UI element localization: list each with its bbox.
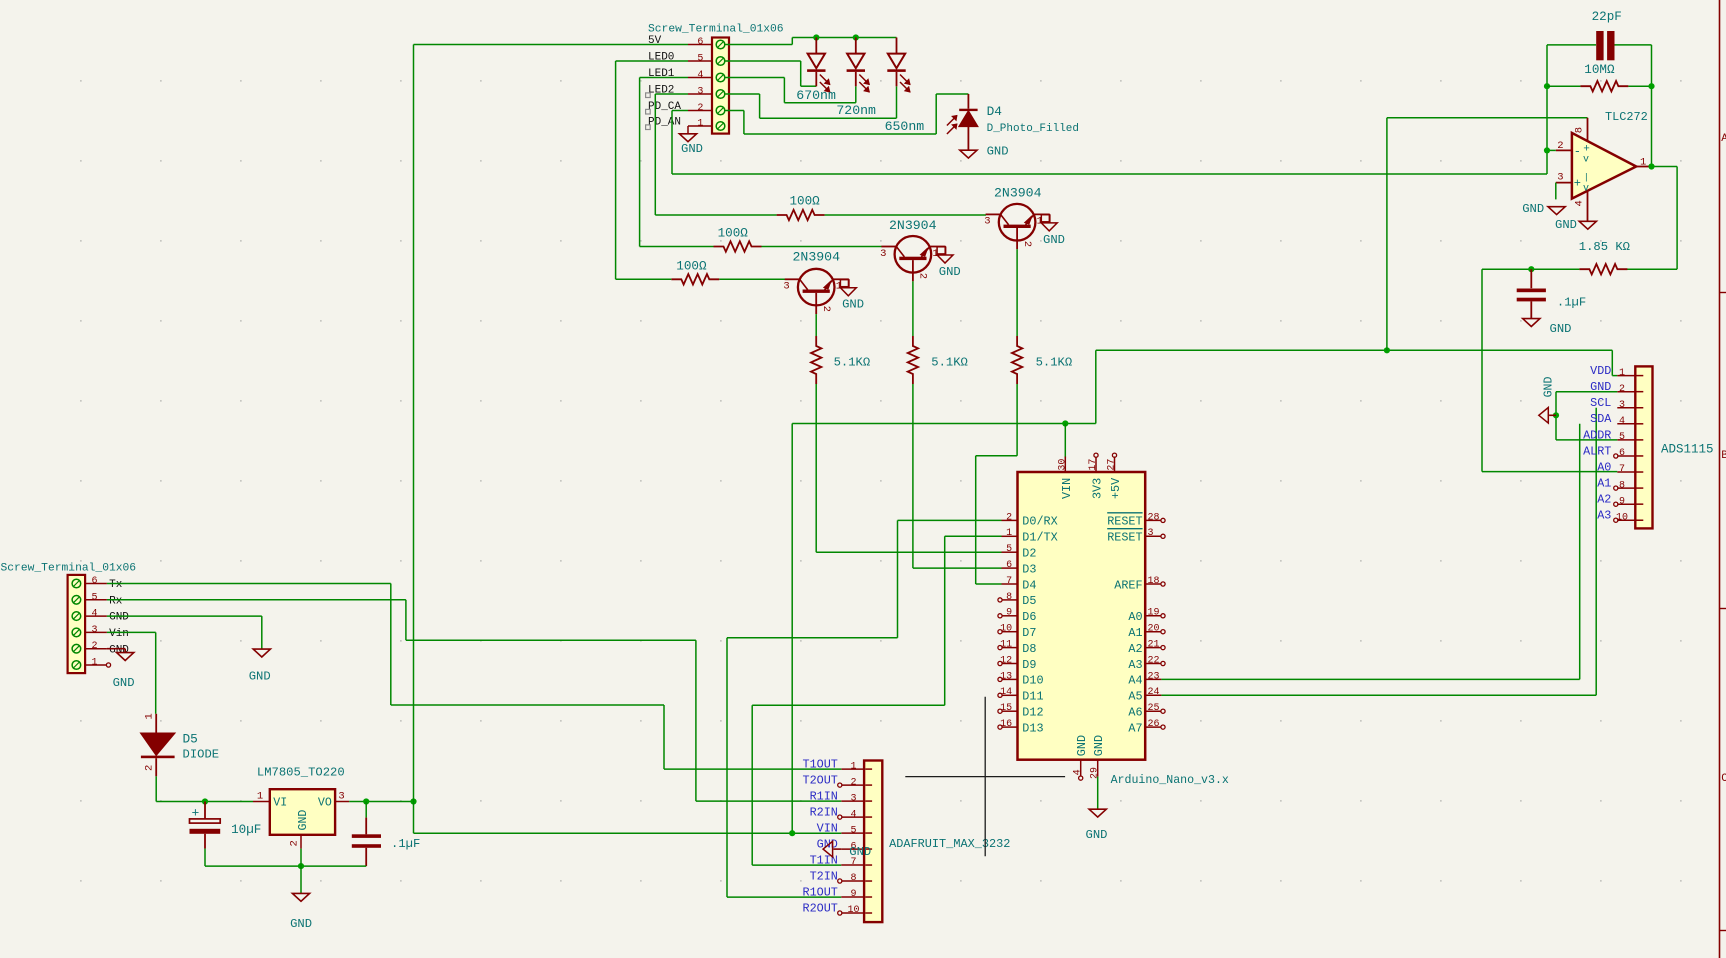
svg-text:23: 23: [1148, 671, 1160, 682]
svg-text:7: 7: [1006, 576, 1012, 587]
svg-text:28: 28: [1148, 512, 1160, 523]
pin 29 GND of U2: [1089, 735, 1106, 779]
svg-text:24: 24: [1148, 687, 1160, 698]
wire Tx to U3 T1OUT: [391, 584, 842, 770]
pin 22 A3 of U2: [1128, 655, 1165, 671]
svg-text:GND: GND: [1555, 218, 1577, 232]
pin 3 SCL of U4: [1590, 396, 1635, 411]
svg-text:1: 1: [1006, 528, 1012, 539]
svg-text:T2IN: T2IN: [810, 869, 838, 883]
svg-text:4: 4: [697, 70, 703, 81]
svg-text:2: 2: [289, 840, 301, 846]
junction feedback at U1 pin 2: [1544, 147, 1550, 153]
svg-text:D12: D12: [1022, 706, 1043, 720]
resistor R4 100Ohm (top row): [777, 195, 825, 221]
pin 3 R1IN of U3: [810, 790, 865, 805]
svg-text:1: 1: [1640, 156, 1646, 168]
wire J2 pin 4 to D2 cathode: [726, 78, 856, 103]
svg-text:.1µF: .1µF: [1557, 296, 1586, 310]
svg-text:D9: D9: [1022, 658, 1036, 672]
svg-text:GND: GND: [1092, 735, 1106, 756]
pin 24 A5 of U2: [1128, 687, 1161, 703]
pin 3 of J1: [85, 625, 129, 640]
svg-text:GND: GND: [297, 810, 310, 831]
pin 10 A3 of U4: [1597, 509, 1635, 524]
svg-text:Screw_Terminal_01x06: Screw_Terminal_01x06: [1, 562, 137, 574]
ground symbol at C4: [1523, 319, 1572, 336]
svg-text:LM7805_TO220: LM7805_TO220: [257, 766, 345, 780]
ground symbol at U1 pin 4: [1555, 218, 1596, 232]
svg-text:3: 3: [338, 790, 344, 802]
pin 25 A6 of U2: [1128, 703, 1165, 719]
svg-text:2: 2: [144, 765, 156, 771]
svg-text:D10: D10: [1022, 674, 1043, 688]
svg-text:3: 3: [697, 87, 703, 98]
connector J2 Screw_Terminal_01x06 (top): [648, 23, 784, 133]
svg-text:5.1KΩ: 5.1KΩ: [931, 355, 968, 369]
svg-text:2: 2: [1006, 512, 1012, 523]
wire +5V to TLC272 pin 8: [1387, 118, 1588, 350]
wire Rx to U3 R1IN: [406, 600, 841, 801]
svg-text:D7: D7: [1022, 626, 1036, 640]
svg-text:D1/TX: D1/TX: [1022, 531, 1057, 545]
svg-text:6: 6: [1006, 560, 1012, 571]
svg-text:22: 22: [1148, 655, 1160, 666]
pin 9 A2 of U4: [1597, 493, 1635, 508]
svg-text:650nm: 650nm: [885, 119, 925, 134]
svg-text:D_Photo_Filled: D_Photo_Filled: [987, 123, 1079, 135]
junction +5V at Arduino VIN: [1062, 420, 1068, 426]
pin 10 D7 of U2: [998, 624, 1037, 640]
svg-text:D8: D8: [1022, 642, 1036, 656]
wire +5V to U3 VIN: [414, 832, 842, 834]
junction +5V at op-amp supply branch: [1384, 347, 1390, 353]
svg-text:8: 8: [1574, 127, 1586, 133]
svg-text:D5: D5: [1022, 594, 1036, 608]
pin 2 D0/RX of U2: [1002, 512, 1058, 528]
pin 4 GND of U2: [1072, 735, 1089, 780]
pin 7 T1IN of U3: [810, 853, 865, 868]
svg-text:VI: VI: [273, 796, 287, 809]
svg-text:A0: A0: [1128, 610, 1142, 624]
svg-text:D3: D3: [1022, 562, 1036, 576]
svg-text:A5: A5: [1128, 690, 1142, 704]
ground symbol below U2: [1086, 809, 1108, 842]
svg-text:Rx: Rx: [109, 595, 123, 607]
wire Arduino A5 to ADS1115 SCL: [1161, 408, 1596, 696]
hierarchical label 5V: [648, 35, 662, 47]
svg-text:GND: GND: [1043, 233, 1065, 247]
ground symbol for J1 pin 4 net: [249, 649, 271, 683]
hierarchical label LED1: [648, 68, 675, 80]
wire LED1 net to R3: [640, 246, 714, 248]
wire Q2 collector to R6: [912, 281, 914, 336]
wire LED0 net to R2: [616, 278, 672, 280]
svg-text:SCL: SCL: [1590, 396, 1611, 410]
ground symbol at J1 pin 2: [107, 649, 135, 691]
svg-text:RESET: RESET: [1107, 515, 1142, 529]
junction VO at C2: [363, 798, 369, 804]
svg-text:GND: GND: [1075, 735, 1089, 756]
wire Vin from J1 pin 3 to D5 anode: [107, 632, 156, 713]
wire op-amp output to U4 A0: [1482, 269, 1617, 471]
pin 2 T2OUT of U3: [802, 774, 864, 789]
svg-text:4: 4: [1072, 769, 1083, 775]
svg-text:ALRT: ALRT: [1583, 444, 1611, 458]
svg-text:Vin: Vin: [109, 628, 129, 640]
module U4 ADS1115 body: [1635, 366, 1713, 528]
svg-text:10MΩ: 10MΩ: [1584, 63, 1615, 77]
connector J1 Screw_Terminal_01x06 (left): [1, 562, 137, 673]
ground symbol at D4 anode: [960, 145, 1009, 159]
svg-text:8: 8: [1619, 480, 1625, 491]
svg-text:6: 6: [91, 576, 97, 587]
junction ground rail at U5 pin 2: [298, 863, 304, 869]
svg-text:AREF: AREF: [1114, 578, 1142, 592]
svg-text:D11: D11: [1022, 690, 1043, 704]
wire +5V to Arduino VIN pin: [1064, 424, 1066, 458]
svg-text:SDA: SDA: [1590, 412, 1612, 426]
pin 3 RESET of U2: [1107, 528, 1165, 544]
pin 4 SDA of U4: [1590, 412, 1635, 427]
pin 28 RESET of U2: [1107, 512, 1165, 528]
pin 27 +5V of U2: [1107, 453, 1124, 499]
pin 30 VIN of U2: [1057, 457, 1074, 500]
resistor R5 5.1KOhm (Q1 collector): [811, 336, 870, 384]
pin 7 A0 of U4: [1597, 460, 1635, 475]
svg-text:5: 5: [850, 825, 856, 836]
svg-text:GND: GND: [249, 669, 271, 683]
pin 4 of J1: [85, 609, 129, 624]
svg-text:26: 26: [1148, 719, 1160, 730]
op-amp U1 TLC272: [1556, 110, 1649, 221]
diode D5: [141, 713, 219, 776]
svg-text:GND: GND: [939, 265, 961, 279]
svg-text:2N3904: 2N3904: [793, 249, 841, 264]
junction at 10uF cap: [202, 798, 208, 804]
svg-text:1.85 KΩ: 1.85 KΩ: [1579, 240, 1630, 254]
wire regulator ground rail: [205, 865, 366, 867]
svg-text:GND: GND: [681, 142, 703, 156]
svg-text:A7: A7: [1128, 721, 1142, 735]
svg-text:A2: A2: [1597, 493, 1611, 507]
svg-text:GND: GND: [1086, 828, 1108, 842]
pin 7 D4 of U2: [1002, 576, 1037, 592]
svg-text:D4: D4: [987, 104, 1003, 119]
hierarchical label LED0: [648, 52, 674, 64]
svg-text:4: 4: [850, 809, 856, 820]
capacitor C1 10uF: [190, 802, 262, 867]
svg-text:30: 30: [1057, 459, 1068, 471]
transistor Q2 2N3904: [880, 218, 945, 281]
svg-text:19: 19: [1148, 608, 1160, 619]
wire LED1 left of J2 pin 4: [640, 78, 688, 247]
pin 2 GND of U4: [1590, 380, 1635, 395]
svg-text:ADS1115: ADS1115: [1661, 442, 1714, 456]
wire LED2 left of J2 pin 3: [655, 94, 688, 215]
wire R3 to Q2 base: [762, 246, 882, 248]
svg-text:3: 3: [1619, 400, 1625, 411]
pin 14 D11 of U2: [998, 687, 1044, 703]
photodiode D4 D_Photo_Filled: [947, 94, 1079, 150]
pin 4 of J2: [688, 70, 712, 81]
svg-text:D5: D5: [183, 731, 198, 746]
svg-text:1: 1: [91, 658, 97, 669]
svg-text:TLC272: TLC272: [1605, 110, 1648, 124]
hierarchical label PD_AN: [646, 117, 681, 130]
pin 4 R2IN of U3: [810, 806, 865, 821]
svg-text:5: 5: [697, 54, 703, 65]
LED D3 650nm: [885, 38, 925, 135]
junction filter node: [1528, 266, 1534, 272]
svg-text:4: 4: [1619, 416, 1625, 427]
svg-text:8: 8: [850, 873, 856, 884]
pin 5 D2 of U2: [1002, 544, 1037, 560]
svg-text:2: 2: [850, 777, 856, 788]
transistor Q1 2N3904: [783, 249, 848, 314]
pin 6 ALRT of U4: [1583, 444, 1635, 459]
pin 13 D10 of U2: [998, 671, 1044, 687]
svg-text:B: B: [1721, 450, 1726, 462]
pin 11 D8 of U2: [998, 640, 1037, 656]
svg-text:DIODE: DIODE: [183, 748, 220, 762]
cursor crosshair: [905, 697, 1065, 857]
svg-text:9: 9: [1619, 496, 1625, 507]
svg-text:2: 2: [1021, 241, 1033, 247]
svg-text:29: 29: [1089, 767, 1100, 779]
svg-text:GND: GND: [1522, 202, 1544, 216]
svg-text:GND: GND: [290, 917, 312, 931]
svg-text:D2: D2: [1022, 547, 1036, 561]
ground symbol at Q3 emitter: [1041, 215, 1065, 247]
pin 19 A0 of U2: [1128, 608, 1165, 624]
svg-text:GND: GND: [987, 145, 1009, 159]
pin 20 A1 of U2: [1128, 624, 1165, 640]
svg-text:10µF: 10µF: [231, 823, 261, 837]
LED D1 670nm: [796, 38, 836, 103]
wire J1 pin 4 to ground: [107, 616, 262, 649]
svg-text:Tx: Tx: [109, 579, 123, 591]
svg-text:100Ω: 100Ω: [790, 195, 821, 209]
svg-text:A6: A6: [1128, 706, 1142, 720]
svg-text:2: 2: [697, 103, 703, 114]
pin 1 of J1: [85, 658, 111, 669]
junction +5V at U3 VIN column: [789, 830, 795, 836]
svg-text:VO: VO: [318, 796, 332, 809]
pin 10 R2OUT of U3: [802, 901, 864, 916]
junction 10M right: [1648, 83, 1654, 89]
pin 1 D1/TX of U2: [1002, 528, 1058, 544]
capacitor C3 22pF: [1547, 10, 1652, 60]
svg-text:GND: GND: [1543, 376, 1556, 397]
resistor R8 1.85 KOhm: [1579, 240, 1630, 275]
pin 16 D13 of U2: [998, 719, 1044, 735]
regulator U5 LM7805_TO220: [257, 766, 345, 835]
pin 2 GND of U5: [289, 835, 302, 849]
resistor R1 10MOhm feedback: [1547, 63, 1652, 92]
svg-text:Screw_Terminal_01x06: Screw_Terminal_01x06: [648, 23, 784, 35]
wire Q1 collector to R5: [815, 314, 817, 336]
svg-text:+5V: +5V: [1109, 477, 1123, 499]
pin 9 R1OUT of U3: [802, 885, 864, 900]
svg-text:-: -: [1574, 144, 1581, 158]
wire LED0 left of J2 pin 5: [616, 61, 688, 279]
junction on LED rail at D2: [853, 34, 859, 40]
svg-text:GND: GND: [1550, 322, 1572, 336]
svg-text:2: 2: [820, 306, 832, 312]
wire Arduino D1/TX to MAX3232 T1IN: [752, 536, 1001, 865]
junction U1 output: [1648, 163, 1654, 169]
sheet frame right border: [1720, 0, 1726, 958]
svg-text:3: 3: [1557, 172, 1563, 184]
pin 18 AREF of U2: [1114, 576, 1165, 592]
svg-text:1: 1: [697, 119, 703, 130]
ground symbol at U1 pin 3: [1522, 183, 1565, 216]
svg-text:GND: GND: [113, 676, 135, 690]
svg-text:1: 1: [144, 713, 156, 719]
svg-text:5.1KΩ: 5.1KΩ: [1036, 355, 1073, 369]
svg-text:1: 1: [1619, 368, 1625, 379]
svg-text:GND: GND: [842, 298, 864, 312]
svg-text:1: 1: [850, 761, 856, 772]
svg-text:3V3: 3V3: [1091, 478, 1105, 499]
pin 6 of J1: [85, 576, 123, 591]
svg-text:GND: GND: [109, 612, 129, 624]
pin 5 of J1: [85, 592, 123, 607]
junction feedback at 10M resistor: [1544, 83, 1550, 89]
pin 15 D12 of U2: [998, 703, 1044, 719]
junction VO at 5V column: [410, 798, 416, 804]
svg-text:ADAFRUIT_MAX_3232: ADAFRUIT_MAX_3232: [889, 837, 1010, 851]
svg-text:C: C: [1721, 773, 1726, 785]
pin 2 of J1: [85, 641, 129, 656]
pin 5 VIN of U3: [817, 822, 864, 837]
resistor R6 5.1KOhm (Q2 collector): [908, 336, 968, 384]
svg-text:D13: D13: [1022, 721, 1043, 735]
svg-text:.1µF: .1µF: [391, 837, 420, 851]
svg-text:3: 3: [783, 281, 789, 293]
junction at U4 ground branch: [1553, 412, 1559, 418]
LED D2 720nm: [836, 38, 876, 118]
wire R5 to Arduino D2: [816, 384, 1001, 552]
hierarchical label LED2: [646, 85, 675, 98]
wire R4 to Q3 base: [825, 214, 986, 216]
svg-text:R2IN: R2IN: [810, 806, 838, 820]
svg-text:2: 2: [91, 641, 97, 652]
svg-text:2N3904: 2N3904: [994, 185, 1042, 200]
pin 1 VI of U5: [253, 790, 270, 802]
svg-text:5.1KΩ: 5.1KΩ: [834, 355, 871, 369]
wire R8 to filter node: [1482, 268, 1579, 270]
wire LED2 net to R4: [655, 214, 776, 216]
pin 1 T1OUT of U3: [802, 758, 864, 773]
svg-text:18: 18: [1148, 576, 1160, 587]
wire +5V bus: [792, 350, 1617, 833]
ground symbol at Q2 emitter: [937, 247, 961, 279]
pin 26 A7 of U2: [1128, 719, 1165, 735]
wire PD_AN net to op-amp inverting input: [672, 173, 1547, 175]
wire Arduino D0/RX to MAX3232 R1OUT: [727, 520, 1002, 897]
svg-text:3: 3: [91, 625, 97, 636]
pin 6 GND of U3: [817, 838, 864, 853]
svg-text:2: 2: [917, 273, 929, 279]
svg-text:A3: A3: [1597, 509, 1611, 523]
wire D5 cathode to regulator input: [156, 776, 253, 801]
transistor Q3 2N3904: [984, 185, 1049, 249]
module U3 ADAFRUIT_MAX_3232 body: [864, 761, 1010, 923]
pin 8 D5 of U2: [998, 592, 1037, 608]
svg-text:10: 10: [847, 905, 859, 916]
wire U2 pin 29 to ground: [1097, 777, 1099, 810]
svg-text:A2: A2: [1128, 642, 1142, 656]
wire U5 pin 2 to ground: [300, 849, 302, 894]
pin 5 ADDR of U4: [1583, 428, 1635, 443]
wire feedback column at U1 inverting input: [1547, 45, 1556, 174]
svg-text:A4: A4: [1128, 674, 1142, 688]
svg-text:R1OUT: R1OUT: [802, 885, 837, 899]
svg-text:T2OUT: T2OUT: [802, 774, 837, 788]
pin 3 of J2: [688, 87, 712, 98]
pin 3 VO of U5: [335, 790, 349, 802]
svg-text:3: 3: [880, 248, 886, 260]
svg-text:6: 6: [697, 37, 703, 48]
svg-text:3: 3: [850, 793, 856, 804]
svg-text:1: 1: [257, 790, 263, 802]
wire J2 pin 5 to D1 cathode: [726, 61, 817, 86]
svg-text:D4: D4: [1022, 578, 1036, 592]
wire J2 pin 3 to D3 cathode: [726, 86, 897, 118]
svg-text:8: 8: [1006, 592, 1012, 603]
wire U4 GND to ADDR: [1556, 392, 1617, 440]
svg-text:A: A: [1721, 133, 1726, 145]
svg-text:v: v: [1583, 155, 1589, 166]
ground symbol at U3 pin 6: [823, 841, 871, 859]
svg-text:R2OUT: R2OUT: [802, 901, 837, 915]
svg-text:A3: A3: [1128, 658, 1142, 672]
ground symbol at Q1 emitter: [840, 280, 864, 312]
svg-text:4: 4: [1574, 200, 1586, 206]
hierarchical label PD_CA: [646, 101, 682, 114]
wire R6 to Arduino D3: [913, 384, 1002, 568]
svg-text:5: 5: [91, 592, 97, 603]
svg-text:4: 4: [91, 609, 97, 620]
svg-text:D0/RX: D0/RX: [1022, 515, 1057, 529]
pin 1 VDD of U4: [1590, 364, 1635, 379]
svg-text:D6: D6: [1022, 610, 1036, 624]
wire VO node: [349, 801, 413, 803]
pin 9 D6 of U2: [998, 608, 1037, 624]
svg-text:PD_AN: PD_AN: [648, 117, 681, 129]
svg-text:17: 17: [1088, 459, 1099, 471]
svg-text:5: 5: [1619, 432, 1625, 443]
junction on LED rail at D1: [813, 34, 819, 40]
module U2 Arduino_Nano_v3.x body: [1018, 472, 1229, 787]
svg-text:100Ω: 100Ω: [676, 260, 707, 274]
svg-text:A1: A1: [1128, 626, 1142, 640]
ground symbol at U4 ADDR (rotated): [1539, 376, 1556, 423]
svg-text:RESET: RESET: [1107, 531, 1142, 545]
wire VO to +5V rail down: [413, 802, 415, 834]
svg-text:5: 5: [1006, 544, 1012, 555]
wire J2 pin 2 to photodiode D4 cathode: [726, 94, 969, 134]
resistor R2 100Ohm (bottom row): [671, 260, 719, 285]
wire R7 to Arduino D4: [976, 384, 1017, 584]
svg-text:3: 3: [1148, 528, 1154, 539]
pin 8 T2IN of U3: [810, 869, 865, 884]
svg-text:21: 21: [1148, 640, 1160, 651]
svg-text:22pF: 22pF: [1592, 10, 1622, 24]
wire R2 to Q1 base: [719, 278, 785, 280]
